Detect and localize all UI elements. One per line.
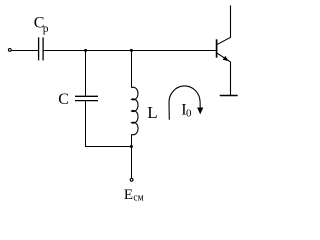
svg-text:см: см — [133, 193, 144, 204]
ground bar — [220, 95, 238, 97]
node junction 1 — [84, 49, 87, 52]
svg-text:0: 0 — [186, 108, 192, 120]
wire junction1 down to C — [85, 51, 87, 96]
svg-text:C: C — [58, 91, 69, 108]
input terminal — [8, 49, 11, 52]
svg-text:р: р — [43, 23, 49, 35]
transistor collector — [217, 5, 231, 44]
capacitor Cp — [39, 37, 44, 60]
wire C down to bottom — [85, 101, 87, 147]
transistor emitter — [217, 53, 231, 96]
svg-text:L: L — [147, 103, 157, 122]
current loop arrow I0 — [169, 86, 200, 120]
node junction 3 — [130, 145, 133, 148]
wire junction2 down to L — [131, 51, 133, 88]
bias terminal — [130, 178, 133, 181]
emitter arrow — [223, 56, 229, 61]
wire input to Cp — [12, 50, 39, 52]
wire L to bottom terminal — [131, 134, 133, 178]
node junction 2 — [130, 49, 133, 52]
transistor Q1 base bar — [216, 39, 218, 57]
wire Cp to transistor base — [44, 50, 217, 52]
capacitor C — [75, 96, 98, 100]
wire bottom horizontal — [85, 146, 132, 148]
svg-text:Е: Е — [124, 187, 133, 203]
inductor L — [132, 87, 139, 135]
